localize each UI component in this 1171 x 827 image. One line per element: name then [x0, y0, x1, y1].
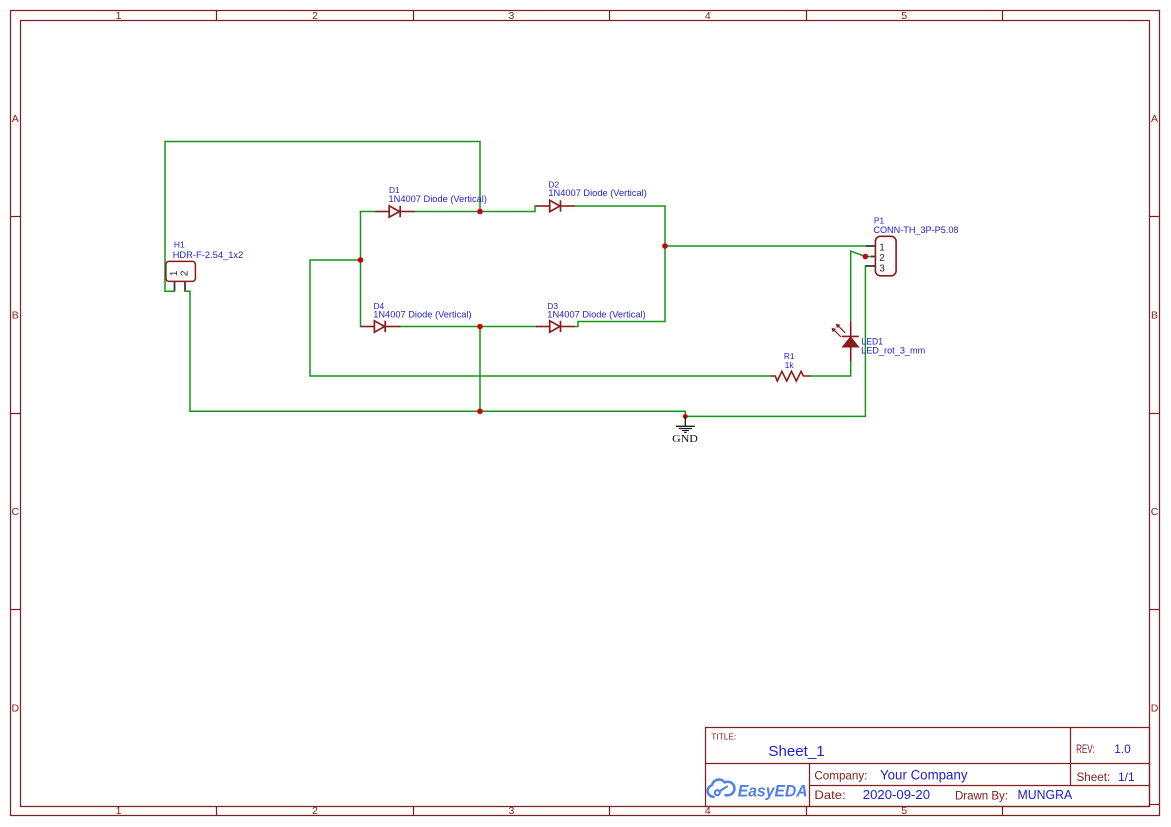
svg-text:B: B	[12, 310, 19, 322]
svg-text:Company:: Company:	[814, 768, 867, 782]
svg-text:C: C	[1151, 506, 1159, 518]
svg-text:D: D	[12, 703, 20, 715]
svg-text:1N4007 Diode (Vertical): 1N4007 Diode (Vertical)	[389, 194, 487, 205]
svg-text:HDR-F-2.54_1x2: HDR-F-2.54_1x2	[173, 250, 244, 261]
svg-text:C: C	[12, 506, 20, 518]
svg-text:1: 1	[116, 805, 122, 817]
svg-text:Date:: Date:	[814, 788, 845, 802]
svg-text:A: A	[12, 113, 19, 125]
svg-text:LED_rot_3_mm: LED_rot_3_mm	[861, 346, 925, 357]
svg-text:Sheet:: Sheet:	[1077, 770, 1111, 784]
svg-text:1k: 1k	[785, 360, 795, 370]
svg-text:REV:: REV:	[1076, 742, 1094, 756]
svg-text:4: 4	[705, 10, 711, 22]
svg-text:1: 1	[116, 10, 122, 22]
svg-text:H1: H1	[174, 240, 185, 250]
svg-text:Sheet_1: Sheet_1	[768, 743, 824, 760]
svg-text:EasyEDA: EasyEDA	[738, 782, 808, 801]
svg-text:A: A	[1151, 113, 1158, 125]
svg-text:Drawn By:: Drawn By:	[955, 788, 1008, 802]
svg-text:5: 5	[901, 10, 907, 22]
svg-text:3: 3	[508, 805, 514, 817]
svg-text:P1: P1	[874, 215, 885, 225]
svg-text:2: 2	[312, 805, 318, 817]
svg-text:2: 2	[312, 10, 318, 22]
svg-text:2: 2	[179, 270, 190, 276]
svg-text:2020-09-20: 2020-09-20	[863, 787, 930, 802]
svg-text:CONN-TH_3P-P5.08: CONN-TH_3P-P5.08	[873, 225, 958, 236]
svg-text:1: 1	[169, 270, 180, 276]
svg-text:1: 1	[879, 243, 885, 254]
svg-text:1/1: 1/1	[1118, 770, 1135, 784]
svg-text:Your Company: Your Company	[880, 767, 968, 782]
svg-text:1N4007 Diode (Vertical): 1N4007 Diode (Vertical)	[548, 188, 646, 199]
svg-text:D: D	[1151, 703, 1159, 715]
svg-text:TITLE:: TITLE:	[711, 731, 736, 741]
svg-text:1.0: 1.0	[1114, 742, 1131, 756]
svg-text:3: 3	[508, 10, 514, 22]
svg-text:GND: GND	[672, 433, 698, 445]
svg-text:1N4007 Diode (Vertical): 1N4007 Diode (Vertical)	[373, 309, 471, 320]
svg-text:MUNGRA: MUNGRA	[1018, 787, 1073, 802]
svg-text:B: B	[1151, 310, 1158, 322]
svg-text:1N4007 Diode (Vertical): 1N4007 Diode (Vertical)	[547, 309, 645, 320]
svg-text:3: 3	[879, 263, 885, 274]
